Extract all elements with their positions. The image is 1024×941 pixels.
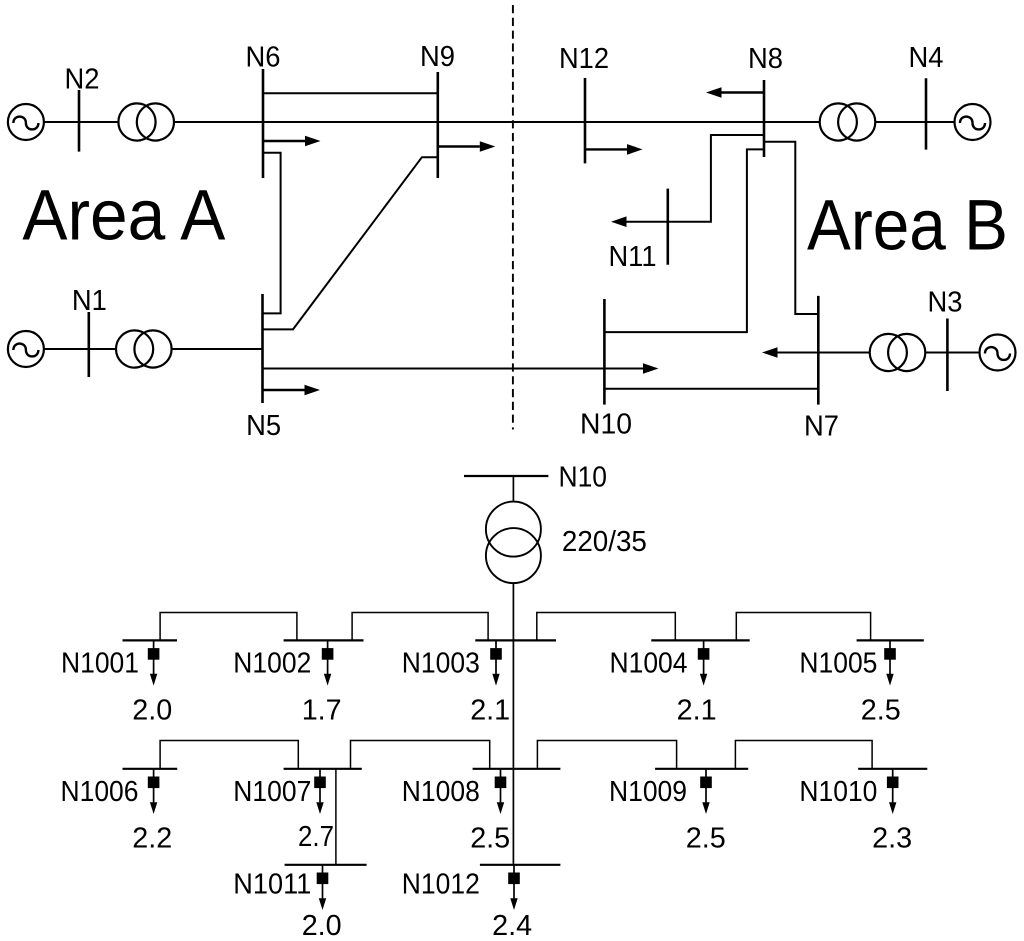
svg-text:N11: N11 — [609, 241, 657, 273]
wire G2 to T2 — [44, 121, 119, 123]
svg-text:N1: N1 — [72, 285, 107, 317]
wire N1004 to N1005 — [736, 613, 870, 641]
load at N1001 — [148, 640, 160, 685]
wire N1009 to N1010 — [735, 741, 872, 769]
generator G1 — [8, 331, 44, 367]
svg-text:N9: N9 — [420, 41, 455, 73]
svg-text:N1002: N1002 — [233, 647, 311, 679]
svg-text:N1012: N1012 — [402, 868, 480, 900]
bus N1 — [88, 312, 91, 377]
wire G1 to T1 — [44, 348, 116, 350]
transformer 220/35 — [486, 502, 541, 584]
load at N1012 — [508, 865, 520, 910]
bus N1001 — [123, 639, 178, 641]
generator G4 — [955, 104, 991, 140]
generator G2 — [8, 104, 44, 140]
svg-text:2.0: 2.0 — [132, 694, 172, 726]
svg-text:N1001: N1001 — [61, 647, 139, 679]
load at N1004 — [698, 640, 710, 685]
feeder wire transformer to N1012 — [512, 583, 514, 865]
svg-text:N8: N8 — [748, 43, 783, 75]
load at N1006 — [148, 769, 160, 814]
bus N1007 — [284, 768, 362, 770]
bus N1010 — [858, 768, 927, 770]
svg-text:2.5: 2.5 — [686, 823, 726, 855]
svg-text:N1011: N1011 — [233, 868, 311, 900]
tie line N5 to N10 with flow arrow — [263, 363, 659, 374]
svg-text:N7: N7 — [804, 411, 839, 443]
wire N1008 to N1009 — [537, 741, 676, 769]
bus N6 — [262, 69, 265, 178]
generator G3 — [980, 335, 1016, 371]
transformer T4 — [820, 103, 876, 140]
load at N1002 — [322, 640, 334, 685]
bus N4 — [925, 78, 928, 149]
svg-text:N10: N10 — [559, 461, 608, 493]
load at N1007 — [314, 769, 326, 814]
transformer T1 — [116, 330, 172, 367]
svg-text:N6: N6 — [246, 41, 281, 73]
bus N9 — [436, 72, 439, 178]
load at N1010 — [887, 769, 899, 814]
svg-text:2.0: 2.0 — [302, 910, 342, 941]
wire N10 to transformer 220/35 — [512, 476, 514, 502]
svg-text:N1004: N1004 — [610, 647, 688, 679]
svg-text:N2: N2 — [65, 64, 100, 96]
svg-text:N10: N10 — [580, 409, 632, 441]
transformer T3 — [870, 334, 926, 371]
load arrow at N5 — [263, 385, 321, 396]
bus N3 — [946, 319, 949, 392]
svg-text:Area A: Area A — [22, 177, 226, 256]
bus N1004 — [651, 639, 749, 641]
bus N1003 — [475, 639, 556, 641]
svg-text:2.5: 2.5 — [470, 823, 510, 855]
svg-text:N1009: N1009 — [609, 776, 687, 808]
bus N10 distribution — [464, 475, 548, 477]
bus N1006 — [123, 768, 178, 770]
wire T1 to N5 — [172, 348, 263, 350]
wire T2 to N6 N9 N12 N8 T4 (main tie line) — [174, 121, 821, 123]
svg-text:N1010: N1010 — [799, 776, 877, 808]
svg-text:N1007: N1007 — [233, 776, 311, 808]
svg-text:2.7: 2.7 — [298, 821, 334, 853]
wire N9 to N5 (diagonal) — [263, 157, 438, 329]
bus N1005 — [857, 639, 924, 641]
dashed area boundary — [512, 5, 514, 430]
transformer T2 — [118, 103, 174, 140]
bus N5 — [261, 294, 264, 403]
bus N7 — [817, 296, 820, 405]
wire N1007 to N1011 — [335, 769, 337, 865]
bus N12 — [584, 78, 587, 163]
wire N8 to N10 (elbow) — [604, 149, 764, 332]
svg-text:2.5: 2.5 — [861, 694, 901, 726]
load arrow at N9 — [438, 141, 496, 152]
load at N1008 — [495, 769, 507, 814]
svg-text:2.4: 2.4 — [492, 910, 532, 941]
load at N1011 — [317, 865, 329, 910]
svg-text:N12: N12 — [559, 43, 609, 75]
svg-text:Area B: Area B — [807, 187, 1008, 266]
wire N10 to N7 (bottom) — [604, 388, 818, 390]
wire N1002 to N1003 — [352, 613, 488, 641]
wire N6 to N9 (upper parallel line) — [263, 92, 438, 94]
bus N1009 — [655, 768, 748, 770]
wire N8 to N7 (right elbow) — [764, 142, 818, 314]
svg-text:N4: N4 — [909, 42, 944, 74]
svg-text:N1008: N1008 — [402, 776, 480, 808]
svg-text:N1005: N1005 — [799, 647, 877, 679]
wire N1006 to N1007 — [160, 741, 298, 769]
svg-text:220/35: 220/35 — [562, 526, 647, 558]
load arrow at N6 — [263, 136, 321, 147]
bus N1012 — [480, 864, 561, 866]
svg-text:N1006: N1006 — [61, 776, 139, 808]
bus N1002 — [284, 639, 364, 641]
wire N6 to N5 (elbow) — [263, 153, 281, 314]
wire T4 to N4 and G4 — [876, 121, 955, 123]
wire N8 to N11 with flow arrow — [611, 135, 764, 227]
svg-text:2.2: 2.2 — [132, 823, 172, 855]
svg-text:2.1: 2.1 — [470, 694, 510, 726]
load at N1003 — [490, 640, 502, 685]
bus N11 — [666, 189, 669, 265]
bus N8 — [763, 80, 766, 157]
wire T3 to N7 with flow arrow — [762, 347, 870, 358]
svg-text:N3: N3 — [928, 287, 963, 319]
svg-text:N1003: N1003 — [402, 647, 480, 679]
flow arrow at N8 (pointing left above tie line) — [706, 87, 764, 98]
load arrow at N12 — [585, 144, 643, 155]
svg-text:2.1: 2.1 — [677, 694, 717, 726]
svg-text:1.7: 1.7 — [302, 694, 342, 726]
svg-text:2.3: 2.3 — [872, 823, 912, 855]
bus N10 — [603, 299, 606, 405]
bus N1008 — [473, 768, 561, 770]
svg-text:N5: N5 — [246, 410, 281, 442]
bus N1011 — [285, 864, 367, 866]
load at N1005 — [884, 640, 896, 685]
bus N2 — [78, 90, 81, 152]
wire T3 to N3 and G3 — [926, 352, 980, 354]
load at N1009 — [700, 769, 712, 814]
wire N1003 to N1004 — [537, 613, 676, 641]
wire N1001 to N1002 — [160, 613, 297, 641]
wire N1007 to N1008 — [351, 741, 490, 769]
